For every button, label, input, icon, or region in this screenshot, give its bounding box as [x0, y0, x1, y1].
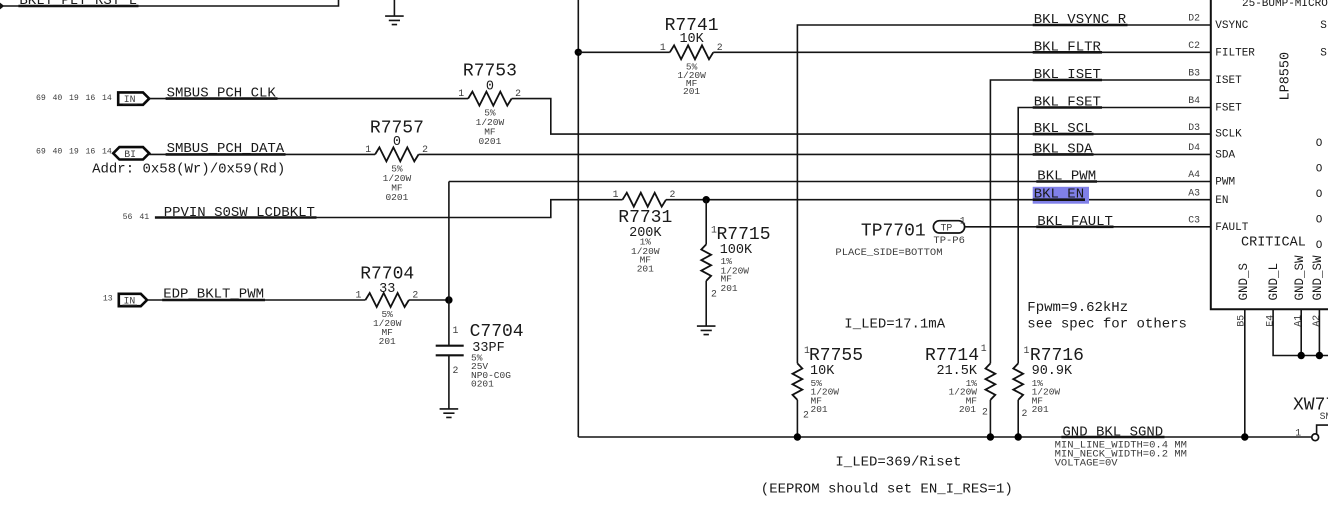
- resistor R7741: [660, 16, 723, 97]
- svg-text:O: O: [1316, 215, 1323, 227]
- svg-text:1: 1: [1295, 427, 1301, 438]
- junction R7714.2 on rail: [987, 433, 994, 440]
- svg-text:A3: A3: [1188, 187, 1200, 198]
- svg-text:GND_BKL_SGND: GND_BKL_SGND: [1062, 425, 1163, 441]
- svg-text:2: 2: [717, 42, 723, 53]
- svg-text:EN: EN: [1215, 195, 1228, 207]
- wire R7755.2: [796, 400, 798, 437]
- svg-text:201: 201: [1032, 404, 1049, 415]
- svg-text:(EEPROM should set EN_I_RES=1): (EEPROM should set EN_I_RES=1): [761, 482, 1013, 498]
- wire C7704.1: [448, 300, 450, 345]
- svg-text:C2: C2: [1188, 40, 1200, 51]
- svg-text:13: 13: [103, 294, 113, 303]
- resistor R7755: [793, 345, 864, 421]
- wire GND_BKL_SGND rail: [578, 436, 1312, 438]
- svg-text:C7704: C7704: [470, 322, 524, 342]
- capacitor C7704: [436, 322, 524, 390]
- svg-text:O: O: [1316, 138, 1323, 150]
- highlight BKL_EN: [1033, 187, 1089, 204]
- svg-text:1: 1: [356, 290, 362, 301]
- svg-text:BI: BI: [124, 149, 136, 160]
- svg-text:19: 19: [69, 94, 79, 103]
- svg-text:0: 0: [393, 135, 401, 150]
- svg-text:2: 2: [803, 410, 809, 421]
- svg-text:56: 56: [123, 213, 133, 222]
- svg-text:I_LED=369/Riset: I_LED=369/Riset: [835, 455, 961, 471]
- ground (top): [393, 0, 395, 16]
- svg-text:ISET: ISET: [1215, 75, 1242, 87]
- ground (R7715): [697, 326, 716, 335]
- svg-text:0201: 0201: [471, 378, 494, 389]
- svg-text:0: 0: [486, 79, 494, 94]
- wire R7715.2: [705, 281, 707, 326]
- resistor R7753: [458, 62, 521, 147]
- svg-text:201: 201: [379, 336, 396, 347]
- svg-text:16: 16: [86, 148, 96, 157]
- svg-text:R7731: R7731: [618, 208, 672, 228]
- port arrow BKLT_PLT_RST_L: [0, 3, 4, 10]
- svg-text:SCLK: SCLK: [1215, 129, 1242, 141]
- junction GND_SW A1: [1298, 352, 1305, 359]
- svg-text:TP7701: TP7701: [861, 222, 926, 242]
- svg-text:SM8: SM8: [1320, 411, 1328, 422]
- svg-text:B4: B4: [1188, 95, 1200, 106]
- svg-text:201: 201: [959, 404, 976, 415]
- svg-text:SDA: SDA: [1215, 150, 1235, 162]
- svg-text:D4: D4: [1188, 142, 1200, 153]
- wire PPVIN_S0SW_LCDBKLT: [156, 200, 623, 218]
- svg-text:69: 69: [36, 148, 46, 157]
- wire BKL_FLTR: [713, 51, 1211, 53]
- svg-text:201: 201: [637, 264, 654, 275]
- wire R7741.1: [578, 51, 670, 53]
- svg-text:201: 201: [811, 404, 828, 415]
- svg-text:41: 41: [139, 213, 149, 222]
- svg-text:E4: E4: [1265, 315, 1276, 327]
- wire BKL_SCL: [512, 99, 1211, 135]
- svg-text:PWM: PWM: [1215, 177, 1235, 189]
- resistor R7715: [701, 225, 770, 300]
- svg-text:A2: A2: [1311, 315, 1322, 327]
- junction R7716.2 on rail: [1015, 433, 1022, 440]
- svg-text:25-BUMP-MICRO: 25-BUMP-MICRO: [1242, 0, 1328, 10]
- svg-text:14: 14: [102, 148, 112, 157]
- junction GND_SW A2: [1316, 352, 1323, 359]
- wire BKL_FAULT: [965, 226, 1211, 228]
- svg-text:Fpwm=9.62kHz: Fpwm=9.62kHz: [1027, 300, 1128, 316]
- svg-text:PLACE_SIDE=BOTTOM: PLACE_SIDE=BOTTOM: [835, 247, 942, 259]
- svg-text:LP8550: LP8550: [1278, 52, 1293, 101]
- svg-text:R7755: R7755: [809, 346, 863, 366]
- svg-text:40: 40: [53, 148, 63, 157]
- resistor R7731: [613, 189, 676, 274]
- resistor R7716: [1013, 345, 1084, 419]
- wire EDP_BKLT_PWM: [147, 299, 365, 301]
- svg-text:BKLT_PLT_RST_L: BKLT_PLT_RST_L: [19, 0, 137, 9]
- svg-text:2: 2: [422, 144, 428, 155]
- wire SMBUS_PCH_DATA: [149, 153, 375, 155]
- svg-text:16: 16: [86, 94, 96, 103]
- svg-text:B3: B3: [1188, 68, 1200, 79]
- wire GND_SW pin A1: [1300, 309, 1302, 355]
- svg-text:D3: D3: [1188, 122, 1200, 133]
- wire BKL_EN: [666, 199, 1211, 201]
- wire GND_L pin E4: [1273, 309, 1328, 355]
- wire GND_S pin B5: [1244, 309, 1246, 437]
- svg-text:2: 2: [515, 88, 521, 99]
- svg-text:10K: 10K: [810, 364, 835, 379]
- svg-text:VOLTAGE=0V: VOLTAGE=0V: [1055, 458, 1119, 470]
- wire BKL_FSET: [1018, 108, 1211, 364]
- junction R7741.1: [575, 49, 582, 56]
- wire SMBUS_PCH_CLK: [149, 98, 468, 100]
- svg-text:0201: 0201: [478, 136, 501, 147]
- svg-text:0201: 0201: [385, 192, 408, 203]
- svg-text:2: 2: [1022, 408, 1028, 419]
- port IN EDP_BKLT_PWM: [119, 294, 147, 307]
- ground (C7704): [440, 409, 459, 418]
- svg-text:21.5K: 21.5K: [936, 364, 977, 379]
- junction GND_S on rail: [1241, 433, 1248, 440]
- svg-text:1: 1: [1024, 345, 1030, 356]
- port IN SMBUS_PCH_CLK: [118, 92, 149, 105]
- svg-text:14: 14: [102, 94, 112, 103]
- svg-text:1: 1: [981, 343, 987, 354]
- svg-text:see spec for others: see spec for others: [1027, 317, 1187, 333]
- svg-text:CRITICAL: CRITICAL: [1241, 236, 1306, 251]
- svg-text:R7716: R7716: [1030, 346, 1084, 366]
- svg-text:33: 33: [379, 282, 395, 297]
- junction R7755.2 on rail: [794, 433, 801, 440]
- connector XW77: [1293, 395, 1328, 440]
- junction R7704.2/C7704.1/BKL_PWM: [445, 296, 452, 303]
- svg-text:FAULT: FAULT: [1215, 222, 1248, 234]
- svg-text:O: O: [1316, 240, 1323, 252]
- svg-text:S: S: [1320, 47, 1327, 59]
- svg-text:40: 40: [53, 94, 63, 103]
- svg-text:GND_L: GND_L: [1267, 263, 1281, 301]
- svg-text:C3: C3: [1188, 215, 1200, 226]
- svg-text:90.9K: 90.9K: [1032, 364, 1073, 379]
- wire R7714.2: [989, 400, 991, 437]
- svg-text:2: 2: [711, 288, 717, 299]
- svg-text:1: 1: [453, 325, 459, 336]
- svg-text:TP: TP: [941, 222, 953, 233]
- svg-text:1: 1: [660, 42, 666, 53]
- svg-text:GND_SW: GND_SW: [1311, 255, 1325, 301]
- junction R7715.1: [703, 196, 710, 203]
- svg-text:2: 2: [670, 189, 676, 200]
- svg-text:1: 1: [458, 88, 464, 99]
- svg-text:A1: A1: [1293, 315, 1304, 327]
- resistor R7714: [925, 343, 995, 418]
- svg-text:19: 19: [69, 148, 79, 157]
- wire BKL_SDA: [419, 153, 1211, 155]
- wire GND_SW pin A2: [1318, 309, 1320, 355]
- svg-text:201: 201: [683, 86, 700, 97]
- svg-text:D2: D2: [1188, 13, 1200, 24]
- wire BKL_PWM riser: [448, 182, 450, 301]
- svg-text:R7715: R7715: [717, 225, 771, 245]
- svg-text:R7714: R7714: [925, 346, 979, 366]
- wire R7704.2: [409, 299, 449, 301]
- svg-text:201: 201: [721, 283, 738, 294]
- svg-text:O: O: [1316, 189, 1323, 201]
- svg-text:O: O: [1316, 163, 1323, 175]
- svg-text:2: 2: [453, 365, 459, 376]
- svg-text:S: S: [1320, 20, 1327, 32]
- svg-text:Addr: 0x58(Wr)/0x59(Rd): Addr: 0x58(Wr)/0x59(Rd): [92, 162, 285, 178]
- svg-text:TP-P6: TP-P6: [933, 235, 965, 247]
- wire C7704.2: [448, 355, 450, 409]
- svg-text:GND_S: GND_S: [1237, 263, 1251, 301]
- svg-text:FSET: FSET: [1215, 103, 1242, 115]
- svg-text:1: 1: [365, 144, 371, 155]
- IC U7701 LP8550 body: [1211, 0, 1328, 309]
- wire BKL_ISET: [990, 80, 1210, 363]
- svg-text:10K: 10K: [679, 32, 704, 47]
- svg-text:2: 2: [982, 407, 988, 418]
- wire BKL_VSYNC_R: [797, 25, 1210, 363]
- wire R7715.1: [705, 200, 707, 245]
- wire BKLT_PLT_RST_L: [4, 0, 339, 6]
- net label underlines: [18, 5, 138, 8]
- svg-text:FILTER: FILTER: [1215, 47, 1255, 59]
- port BI SMBUS_PCH_DATA: [113, 147, 149, 160]
- resistor R7704: [356, 265, 419, 347]
- resistor R7757: [365, 118, 428, 203]
- wire GND_BKL_SGND vertical: [577, 0, 579, 437]
- svg-text:A4: A4: [1188, 169, 1200, 180]
- svg-text:I_LED=17.1mA: I_LED=17.1mA: [844, 317, 945, 333]
- svg-text:1: 1: [960, 215, 966, 226]
- testpoint TP7701: [861, 215, 966, 247]
- svg-text:2: 2: [412, 290, 418, 301]
- svg-text:1: 1: [613, 189, 619, 200]
- svg-text:GND_SW: GND_SW: [1293, 255, 1307, 301]
- svg-text:VSYNC: VSYNC: [1215, 20, 1248, 32]
- svg-text:69: 69: [36, 94, 46, 103]
- wire R7716.2: [1017, 400, 1019, 437]
- wire BKL_PWM: [449, 181, 1211, 183]
